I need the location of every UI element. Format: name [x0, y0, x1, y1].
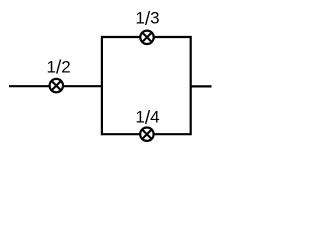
svg-text:1/2: 1/2	[46, 57, 70, 78]
svg-text:1/4: 1/4	[135, 108, 159, 129]
svg-text:1/3: 1/3	[135, 9, 159, 30]
